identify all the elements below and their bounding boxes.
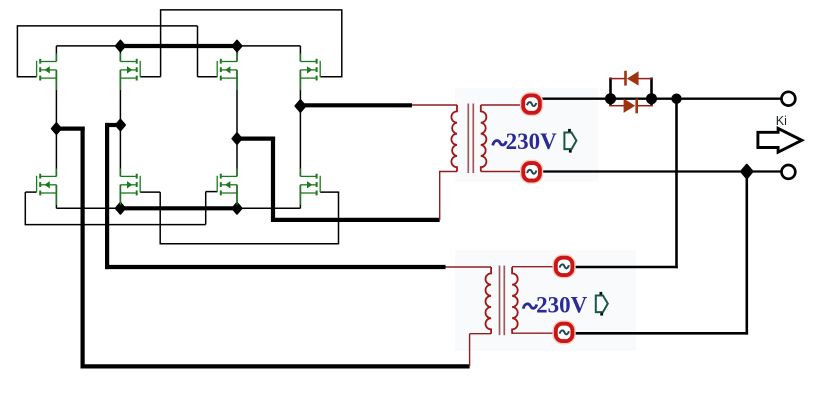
- wire leg1 vertical Q1-Q5: [55, 70, 57, 208]
- wire T2 upper secondary to output top: [573, 99, 678, 269]
- label ~230V for T2: [523, 293, 587, 318]
- transistor Q8: [300, 168, 320, 205]
- node output bottom branch: [741, 165, 753, 179]
- thick wire node1 to transformer T2 lower terminal: [56, 127, 469, 369]
- wire gate net Q1-Q3 (top-left loop): [17, 26, 218, 78]
- transistor Q3: [217, 54, 237, 91]
- wire leg2 vertical Q2-Q6: [119, 70, 121, 208]
- output terminal bottom: [782, 165, 796, 179]
- wire source bus bottom row: [56, 207, 300, 209]
- node drain bus junction B: [232, 41, 241, 52]
- diode D1 (upper, cathode left): [624, 71, 638, 86]
- svg-text:230V: 230V: [536, 293, 588, 318]
- transistor Q1: [37, 54, 57, 91]
- transformer T1 left winding: [451, 105, 457, 172]
- wire leg4 vertical Q4-Q8: [299, 70, 301, 208]
- node leg4 midpoint: [295, 100, 305, 112]
- net flag flag T1: [564, 129, 576, 153]
- svg-text:230V: 230V: [506, 129, 557, 154]
- node leg3 midpoint: [232, 133, 241, 144]
- wire gate net Q5-Q7 (bottom-left loop): [25, 192, 218, 225]
- thick wire node2 to transformer T2 upper terminal: [105, 123, 446, 269]
- transistor Q7: [217, 168, 237, 205]
- output terminal top: [782, 92, 796, 106]
- wire transformer T2 primary stubs: [446, 267, 492, 366]
- wire T2 lower secondary to output bottom: [573, 172, 748, 335]
- transformer T2 core: [500, 266, 505, 336]
- node leg1 midpoint: [52, 123, 61, 134]
- wire transformer T1 secondary stubs: [481, 105, 524, 172]
- node source bus junction B: [232, 203, 241, 214]
- diode D2 (lower, cathode right): [624, 99, 638, 114]
- transistor Q4: [300, 54, 320, 91]
- wire output bottom net: [542, 170, 781, 172]
- tint region behind transformer T1 label: [455, 88, 598, 182]
- net flag flag T2: [596, 292, 608, 316]
- transistor Q6: [120, 168, 140, 205]
- tint region behind transformer T2 label: [455, 250, 636, 351]
- wire output top net: [541, 98, 781, 100]
- output arrow Ki: [758, 128, 802, 152]
- AC source bubble V2 pin2: [554, 322, 575, 344]
- transformer T1 right winding: [481, 105, 487, 172]
- thick wire source bus segment: [120, 206, 237, 210]
- wire gate net Q2-Q4 (top loop): [140, 10, 342, 77]
- transformer T1 core: [468, 104, 473, 174]
- node drain bus junction A: [116, 41, 125, 52]
- AC source bubble V1 pin2: [521, 161, 542, 183]
- transistor Q5: [37, 168, 57, 205]
- wire transformer T1 primary stubs: [412, 105, 457, 220]
- wire diode branch risers: [609, 78, 653, 106]
- wire drain bus top row: [56, 46, 300, 62]
- node source bus junction A: [116, 203, 125, 214]
- AC source bubble V1 pin1: [521, 93, 542, 115]
- label ~230V for T1: [493, 129, 557, 154]
- transformer T2 left winding: [486, 267, 492, 334]
- transformer T2 right winding: [512, 267, 518, 334]
- transistor Q2: [120, 54, 140, 91]
- node output top branch: [671, 94, 681, 104]
- AC source bubble V2 pin1: [554, 256, 575, 278]
- thick wire node3 to transformer T1 lower terminal: [237, 137, 440, 223]
- thick wire node4 to transformer T1 upper terminal: [300, 103, 412, 107]
- svg-text:Ki: Ki: [776, 114, 787, 128]
- wire gate net Q6-Q8 (bottom loop): [140, 192, 339, 244]
- node diode right: [646, 93, 657, 104]
- node leg2 midpoint: [116, 120, 125, 131]
- wire transformer T2 secondary stubs: [512, 267, 556, 334]
- thick wire drain bus segment: [120, 44, 237, 48]
- wire leg3 vertical Q3-Q7: [236, 70, 238, 208]
- node diode left: [605, 93, 616, 104]
